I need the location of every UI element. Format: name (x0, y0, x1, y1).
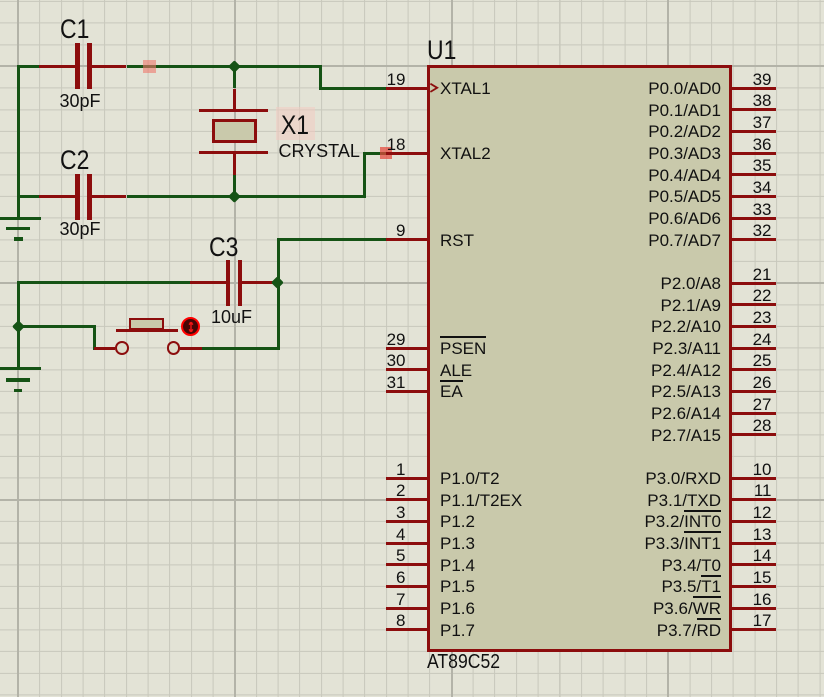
pin 31 EA (0, 0, 1, 1)
pin 1 P1.0/T2 (0, 0, 1, 1)
pin 32 P0.7/AD7 (0, 0, 1, 1)
pin 24 P2.3/A11 (0, 0, 1, 1)
pin 10 P3.0/RXD (0, 0, 1, 1)
capacitor C1 (0, 0, 1, 1)
pin 26 P2.5/A13 (0, 0, 1, 1)
pin 34 P0.5/AD5 (0, 0, 1, 1)
wire (17, 281, 192, 284)
wire (17, 195, 40, 198)
pin 2 P1.1/T2EX (0, 0, 1, 1)
pin 6 P1.5 (0, 0, 1, 1)
pin 21 P2.0/A8 (0, 0, 1, 1)
pin 30 ALE (0, 0, 1, 1)
pin 14 P3.4/T0 (0, 0, 1, 1)
IC U1 AT89C52 body (427, 65, 732, 652)
ground (0, 0, 1, 1)
pin 13 P3.3/INT1 (0, 0, 1, 1)
pin 18 XTAL2 (0, 0, 1, 1)
wire (17, 325, 95, 328)
junction (272, 276, 284, 288)
pin 22 P2.1/A9 (0, 0, 1, 1)
pin 16 P3.6/WR (0, 0, 1, 1)
junction (229, 60, 241, 72)
pin 4 P1.3 (0, 0, 1, 1)
pin 36 P0.3/AD3 (0, 0, 1, 1)
pin 33 P0.6/AD6 (0, 0, 1, 1)
pin 17 P3.7/RD (0, 0, 1, 1)
wire (319, 87, 386, 90)
wire (277, 238, 280, 349)
AT89C52 value label (427, 652, 500, 672)
wire (93, 325, 96, 350)
pin 11 P3.1/TXD (0, 0, 1, 1)
pin 5 P1.4 (0, 0, 1, 1)
wire (363, 152, 366, 198)
junction (229, 190, 241, 202)
wire (202, 347, 278, 350)
capacitor C3 (0, 0, 1, 1)
pin 27 P2.6/A14 (0, 0, 1, 1)
wire (319, 65, 322, 90)
U1 reference label (427, 37, 456, 64)
wire (17, 281, 20, 370)
wire (233, 174, 236, 198)
pin 3 P1.2 (0, 0, 1, 1)
pin 23 P2.2/A10 (0, 0, 1, 1)
wire (363, 152, 386, 155)
wire (233, 65, 236, 89)
junction (12, 320, 24, 332)
wire (277, 238, 386, 241)
pin 29 PSEN (0, 0, 1, 1)
pin 35 P0.4/AD4 (0, 0, 1, 1)
ground (0, 0, 1, 1)
wire (127, 195, 367, 198)
pin 9 RST (0, 0, 1, 1)
pin 37 P0.2/AD2 (0, 0, 1, 1)
pin 38 P0.1/AD1 (0, 0, 1, 1)
pin 28 P2.7/A15 (0, 0, 1, 1)
pin 12 P3.2/INT0 (0, 0, 1, 1)
push button (0, 0, 1, 1)
net marker (380, 147, 392, 159)
capacitor C2 (0, 0, 1, 1)
wire (17, 65, 40, 68)
pin 39 P0.0/AD0 (0, 0, 1, 1)
pin 19 XTAL1 (0, 0, 1, 1)
net marker (143, 60, 156, 73)
wire (127, 65, 323, 68)
pin 25 P2.4/A12 (0, 0, 1, 1)
button actuator indicator (0, 0, 1, 1)
crystal X1 (0, 0, 1, 1)
pin 15 P3.5/T1 (0, 0, 1, 1)
wire (17, 65, 20, 219)
pin 8 P1.7 (0, 0, 1, 1)
pin 7 P1.6 (0, 0, 1, 1)
